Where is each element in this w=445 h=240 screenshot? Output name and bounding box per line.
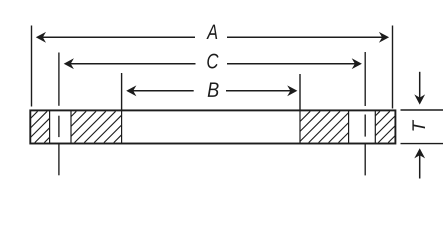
dimension line A bbox=[40, 36, 195, 38]
right bolt hole right wall bbox=[374, 110, 376, 143]
hatch block left rim bbox=[30, 111, 37, 118]
bolt hole right wall bbox=[70, 110, 72, 143]
arrowhead C right bbox=[352, 58, 362, 69]
label B bbox=[208, 82, 219, 96]
hatch block right hub bbox=[300, 111, 310, 121]
extension line B right bbox=[299, 74, 301, 110]
label C bbox=[207, 54, 218, 69]
arrowhead A left bbox=[36, 32, 46, 43]
hatch block right rim bbox=[375, 111, 380, 116]
T arrow shafts bbox=[419, 72, 421, 98]
bolt hole left wall bbox=[49, 110, 51, 143]
right bolt hole left wall bbox=[348, 110, 350, 143]
flange plate outline bbox=[30, 110, 395, 143]
arrowhead C left bbox=[64, 58, 74, 69]
label T rotated bbox=[412, 120, 425, 131]
bore right wall bbox=[299, 110, 301, 143]
label A bbox=[206, 25, 217, 39]
extension line B left bbox=[121, 73, 123, 110]
extension line A left bbox=[31, 26, 33, 107]
dimension line C bbox=[68, 63, 196, 65]
extension line A right bbox=[392, 26, 394, 109]
T dimension tick bottom bbox=[401, 143, 444, 145]
arrowhead A right bbox=[379, 32, 389, 43]
arrowhead T bottom pointing up bbox=[414, 148, 425, 158]
bore left wall bbox=[121, 110, 123, 143]
hatch block left hub bbox=[71, 111, 76, 116]
arrowhead B left bbox=[126, 85, 136, 96]
arrowhead B right bbox=[287, 85, 297, 96]
centerline left bolt hole bbox=[58, 53, 60, 106]
centerline right bolt hole bbox=[364, 52, 366, 106]
arrowhead T top pointing down bbox=[414, 94, 425, 104]
dimension line B bbox=[131, 90, 194, 92]
T dimension tick top bbox=[401, 109, 444, 111]
